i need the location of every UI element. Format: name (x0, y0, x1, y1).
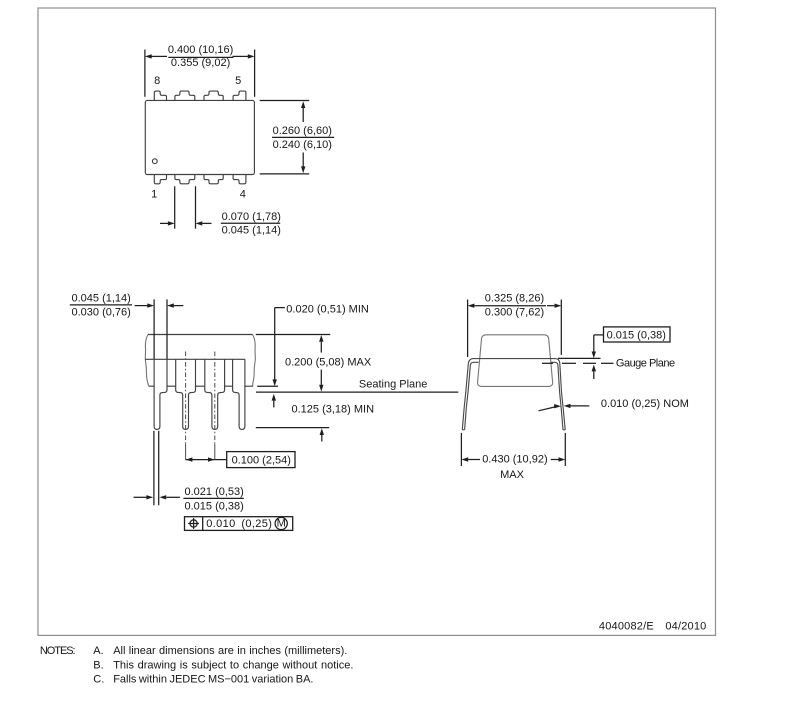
svg-text:Gauge Plane: Gauge Plane (616, 357, 675, 369)
svg-text:0.260 (6,60): 0.260 (6,60) (273, 125, 332, 137)
svg-text:0.200 (5,08) MAX: 0.200 (5,08) MAX (285, 357, 372, 369)
svg-text:0.010 (0,25): 0.010 (0,25) (206, 518, 272, 530)
svg-text:0.015 (0,38): 0.015 (0,38) (185, 500, 244, 512)
svg-text:0.300 (7,62): 0.300 (7,62) (485, 307, 544, 319)
svg-text:8: 8 (154, 75, 160, 87)
svg-text:0.355 (9,02): 0.355 (9,02) (171, 57, 230, 69)
svg-text:Seating Plane: Seating Plane (359, 379, 428, 391)
svg-text:0.430 (10,92): 0.430 (10,92) (482, 454, 547, 466)
svg-text:0.125 (3,18) MIN: 0.125 (3,18) MIN (292, 403, 375, 415)
svg-text:C.: C. (93, 673, 104, 685)
svg-text:A.: A. (93, 645, 103, 657)
svg-text:0.045 (1,14): 0.045 (1,14) (72, 293, 131, 305)
svg-text:0.400 (10,16): 0.400 (10,16) (168, 44, 233, 56)
svg-text:0.070 (1,78): 0.070 (1,78) (222, 211, 281, 223)
svg-text:0.021 (0,53): 0.021 (0,53) (185, 486, 244, 498)
svg-text:B.: B. (93, 659, 103, 671)
svg-text:5: 5 (235, 75, 241, 87)
svg-text:0.100 (2,54): 0.100 (2,54) (232, 454, 291, 466)
svg-text:0.240 (6,10): 0.240 (6,10) (273, 139, 332, 151)
svg-text:This drawing is subject to cha: This drawing is subject to change withou… (113, 659, 353, 671)
svg-text:1: 1 (151, 189, 157, 201)
svg-text:All linear dimensions are in i: All linear dimensions are in inches (mil… (113, 645, 347, 657)
svg-text:0.015 (0,38): 0.015 (0,38) (607, 330, 666, 342)
svg-text:0.045 (1,14): 0.045 (1,14) (222, 225, 281, 237)
svg-text:M: M (277, 518, 286, 530)
svg-text:4040082/E 04/2010: 4040082/E 04/2010 (599, 620, 707, 632)
svg-text:0.020 (0,51) MIN: 0.020 (0,51) MIN (286, 303, 369, 315)
svg-text:4: 4 (240, 189, 246, 201)
svg-text:Falls within JEDEC MS−001 vari: Falls within JEDEC MS−001 variation BA. (113, 673, 313, 685)
svg-text:0.030 (0,76): 0.030 (0,76) (72, 306, 131, 318)
svg-text:0.325 (8,26): 0.325 (8,26) (485, 292, 544, 304)
svg-text:NOTES:: NOTES: (40, 645, 76, 657)
svg-text:0.010 (0,25) NOM: 0.010 (0,25) NOM (601, 398, 689, 410)
svg-text:MAX: MAX (500, 469, 525, 481)
